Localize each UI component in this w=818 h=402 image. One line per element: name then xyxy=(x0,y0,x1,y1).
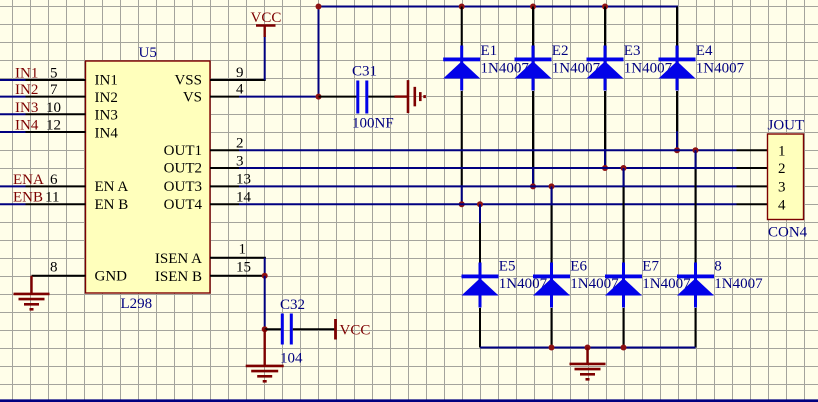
junction E6 on OUT line xyxy=(549,183,555,189)
svg-text:OUT4: OUT4 xyxy=(164,197,203,213)
svg-text:E1: E1 xyxy=(481,43,498,59)
wire ISEN A down xyxy=(264,258,266,276)
diode E1 top pin xyxy=(461,7,463,47)
junction E5 on OUT line xyxy=(477,201,483,207)
wire net IN3 xyxy=(0,113,26,115)
svg-text:1: 1 xyxy=(778,144,786,160)
svg-text:IN2: IN2 xyxy=(15,82,38,98)
svg-text:E4: E4 xyxy=(696,43,713,59)
wire net IN4 xyxy=(0,131,26,133)
svg-text:10: 10 xyxy=(46,100,61,116)
svg-text:6: 6 xyxy=(50,172,58,188)
wire E6 from OUT line xyxy=(551,186,553,206)
wire 8 from OUT line xyxy=(695,150,697,170)
svg-text:8: 8 xyxy=(714,259,722,275)
connector pin stub (OUT3) xyxy=(737,185,768,187)
svg-text:12: 12 xyxy=(46,118,61,134)
pin 14 stub of U5 (OUT4) xyxy=(210,203,239,205)
capacitor C32 left pin xyxy=(265,328,281,330)
diode E6 top pin xyxy=(551,205,553,263)
junction E7 on OUT line xyxy=(621,165,627,171)
pin 4 stub of U5 (VS) xyxy=(210,96,239,98)
svg-text:C31: C31 xyxy=(352,64,377,80)
wire E1 to OUT line xyxy=(461,185,463,204)
wire VS riser to top rail xyxy=(318,7,320,97)
diode E6 bottom pin xyxy=(551,308,553,348)
svg-text:5: 5 xyxy=(50,66,58,82)
op-amp U5 body (L298 driver IC rectangle) xyxy=(86,61,211,293)
svg-text:E6: E6 xyxy=(570,259,587,275)
svg-text:11: 11 xyxy=(45,190,59,206)
svg-text:2: 2 xyxy=(236,136,244,152)
connector JOUT body (CON4) xyxy=(768,134,804,220)
junction VS and C31 xyxy=(316,94,322,100)
wire net IN1 xyxy=(0,79,26,81)
junction E6 on ground rail xyxy=(549,345,555,351)
svg-text:ENA: ENA xyxy=(13,172,44,188)
capacitor C31 plates xyxy=(356,81,368,114)
wire VCC riser vertical xyxy=(264,36,266,80)
junction top rail at E2 xyxy=(530,4,536,10)
diode E8 bottom pin xyxy=(695,308,697,348)
junction E2 on OUT line xyxy=(530,183,536,189)
ground symbol at U5 GND xyxy=(14,294,50,309)
svg-text:VS: VS xyxy=(183,90,202,106)
junction E4 on OUT line xyxy=(674,147,680,153)
wire VS horizontal to junction xyxy=(239,96,319,98)
pin 6 stub of U5 (ENA) xyxy=(26,185,86,187)
svg-text:2: 2 xyxy=(778,161,786,177)
junction ISEN A/B xyxy=(262,273,268,279)
svg-text:VCC: VCC xyxy=(340,323,371,339)
pin 13 stub of U5 (OUT3) xyxy=(210,185,239,187)
svg-text:E3: E3 xyxy=(624,43,641,59)
diode E2 symbol (1N4007) xyxy=(515,46,552,91)
svg-text:L298: L298 xyxy=(121,296,153,312)
wire net OUT1 to JOUT xyxy=(239,149,737,151)
wire bottom ground rail xyxy=(480,347,696,349)
pin 9 stub of U5 (VSS) xyxy=(210,79,239,81)
svg-text:ISEN A: ISEN A xyxy=(155,251,202,267)
pin 3 stub of U5 (OUT2) xyxy=(210,167,239,169)
svg-text:1N4007: 1N4007 xyxy=(696,61,745,77)
svg-text:ENB: ENB xyxy=(13,190,43,206)
wire top VCC rail xyxy=(319,6,679,8)
power port VCC stem and bar xyxy=(256,26,276,38)
junction top rail at E3 xyxy=(602,4,608,10)
capacitor C32 plates xyxy=(281,314,293,345)
junction E7 on ground rail xyxy=(621,345,627,351)
svg-text:1N4007: 1N4007 xyxy=(714,276,763,292)
diode E1 bottom pin xyxy=(461,91,463,186)
ground symbol at C31 (rotated right) xyxy=(408,80,425,113)
diode E4 top pin xyxy=(676,7,678,47)
wire E3 to OUT line xyxy=(604,149,606,168)
ground stem bottom rail xyxy=(586,348,588,365)
pin 15 stub of U5 (ISEN B) xyxy=(210,275,264,277)
diode E8 symbol (1N4007) xyxy=(677,263,714,308)
junction at C32 xyxy=(262,326,268,332)
capacitor C32 right pin xyxy=(293,328,335,330)
pin 8 stub of U5 (GND) xyxy=(32,275,86,277)
wire E5 from OUT line xyxy=(479,204,481,224)
diode E3 symbol (1N4007) xyxy=(587,46,624,91)
wire net OUT3 to JOUT xyxy=(239,185,737,187)
junction at VS corner xyxy=(316,4,322,10)
wire net IN2 xyxy=(0,96,26,98)
svg-text:VCC: VCC xyxy=(251,10,282,26)
capacitor C31 left pin xyxy=(319,96,357,98)
ground stem at C31 (rotated) xyxy=(395,95,409,97)
svg-text:EN A: EN A xyxy=(95,179,129,195)
svg-text:U5: U5 xyxy=(139,45,157,61)
pin 11 stub of U5 (ENB) xyxy=(26,203,86,205)
ground stem below C32 xyxy=(264,329,266,366)
svg-text:IN1: IN1 xyxy=(15,66,38,82)
junction ground stem on rail xyxy=(585,345,591,351)
svg-text:VSS: VSS xyxy=(174,73,202,89)
pin 12 stub of U5 (IN4) xyxy=(26,131,86,133)
svg-text:7: 7 xyxy=(50,82,58,98)
diode E7 bottom pin xyxy=(623,308,625,348)
svg-text:15: 15 xyxy=(236,260,251,276)
junction top rail at E1 xyxy=(459,4,465,10)
svg-text:E2: E2 xyxy=(552,43,569,59)
svg-text:3: 3 xyxy=(778,180,786,196)
wire E2 to OUT line xyxy=(532,167,534,186)
svg-text:1: 1 xyxy=(239,242,247,258)
svg-text:OUT1: OUT1 xyxy=(164,143,202,159)
diode E8 top pin xyxy=(695,169,697,263)
wire pin9 to VCC riser xyxy=(239,79,266,81)
svg-text:JOUT: JOUT xyxy=(768,118,805,134)
connector pin stub (OUT2) xyxy=(737,167,768,169)
sheet border bottom xyxy=(0,399,818,402)
junction E1 on OUT line xyxy=(459,201,465,207)
diode E4 symbol (1N4007) xyxy=(659,46,696,91)
wire E4 to OUT line xyxy=(676,131,678,150)
power port VCC bar (right of C32) xyxy=(334,319,337,340)
wire net ENB xyxy=(0,203,26,205)
svg-text:104: 104 xyxy=(280,351,303,367)
svg-text:IN1: IN1 xyxy=(95,73,118,89)
diode E7 top pin xyxy=(623,187,625,263)
svg-text:OUT2: OUT2 xyxy=(164,161,202,177)
diode E2 bottom pin xyxy=(532,91,534,168)
svg-text:13: 13 xyxy=(236,172,251,188)
svg-text:C32: C32 xyxy=(280,297,305,313)
svg-text:100NF: 100NF xyxy=(352,116,394,132)
svg-text:8: 8 xyxy=(50,260,58,276)
ground symbol bottom rail xyxy=(570,364,606,379)
pin 5 stub of U5 (IN1) xyxy=(26,79,86,81)
capacitor C31 right pin xyxy=(368,96,395,98)
svg-text:ISEN B: ISEN B xyxy=(155,269,202,285)
svg-text:CON4: CON4 xyxy=(768,225,808,241)
svg-text:E5: E5 xyxy=(499,259,516,275)
svg-text:IN3: IN3 xyxy=(15,100,38,116)
diode E4 bottom pin xyxy=(676,91,678,132)
diode E7 symbol (1N4007) xyxy=(605,263,642,308)
diode E5 bottom pin xyxy=(479,308,481,348)
svg-text:IN3: IN3 xyxy=(95,108,118,124)
pin 10 stub of U5 (IN3) xyxy=(26,113,86,115)
svg-text:IN2: IN2 xyxy=(95,90,118,106)
svg-text:IN4: IN4 xyxy=(95,125,119,141)
diode E3 top pin xyxy=(604,7,606,47)
svg-text:9: 9 xyxy=(236,65,244,81)
ground symbol below C32 xyxy=(246,366,284,381)
diode E3 bottom pin xyxy=(604,91,606,150)
pin 1 stub of U5 (ISEN A) xyxy=(210,257,266,259)
svg-text:E7: E7 xyxy=(642,259,659,275)
svg-text:4: 4 xyxy=(236,82,244,98)
diode E5 symbol (1N4007) xyxy=(462,263,499,308)
wire E7 from OUT line xyxy=(623,168,625,188)
diode E2 top pin xyxy=(532,7,534,47)
svg-text:OUT3: OUT3 xyxy=(164,179,202,195)
diode E1 symbol (1N4007) xyxy=(443,46,480,91)
pin 7 stub of U5 (IN2) xyxy=(26,96,86,98)
wire ISEN down to C32 xyxy=(264,276,266,329)
ground stem at U5 GND xyxy=(30,276,32,294)
diode E5 top pin xyxy=(479,223,481,263)
svg-text:14: 14 xyxy=(236,190,252,206)
wire net OUT2 to JOUT xyxy=(239,167,737,169)
connector pin stub (OUT1) xyxy=(737,149,768,151)
svg-text:IN4: IN4 xyxy=(15,118,39,134)
svg-text:EN B: EN B xyxy=(95,197,129,213)
svg-text:4: 4 xyxy=(778,198,786,214)
diode E6 symbol (1N4007) xyxy=(533,263,570,308)
junction 8 on OUT line xyxy=(693,147,699,153)
junction E3 on OUT line xyxy=(602,165,608,171)
wire net OUT4 to JOUT xyxy=(239,203,737,205)
svg-text:GND: GND xyxy=(95,269,128,285)
connector pin stub (OUT4) xyxy=(737,203,768,205)
wire net ENA xyxy=(0,185,26,187)
pin 2 stub of U5 (OUT1) xyxy=(210,149,239,151)
